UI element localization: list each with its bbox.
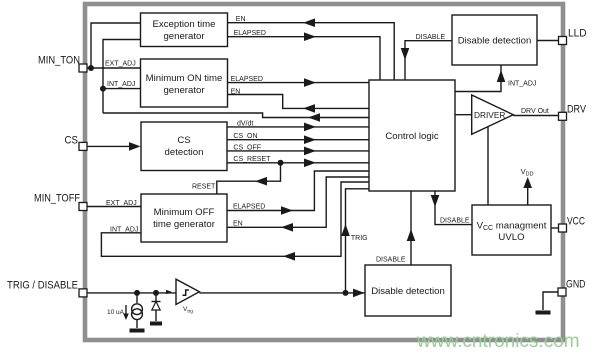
svg-text:MIN_TOFF: MIN_TOFF [34, 193, 80, 205]
block Exception time generator [141, 13, 228, 47]
wire diode cathode to ground [155, 310, 157, 321]
wire DISABLE top detection to control logic [405, 41, 452, 80]
wire TRIG line comparator to control logic [346, 189, 370, 293]
block Disable detection bottom [365, 265, 451, 316]
wire MinON INT_ADJ branch [103, 88, 141, 90]
current direction arrow 10uA [125, 305, 127, 315]
svg-text:time generator: time generator [153, 219, 216, 230]
arrowhead TRIG up [341, 224, 350, 236]
wire MIN_TON branch up to Exception EXT input [91, 23, 141, 68]
op-amp DRIVER U2 [472, 95, 514, 134]
svg-text:Disable detection: Disable detection [458, 36, 532, 47]
arrowhead INT_ADJ MinOFF left [283, 252, 295, 261]
wire ELAPSED MinOFF line [227, 171, 369, 211]
svg-text:CS_OFF: CS_OFF [233, 144, 261, 151]
outer IC frame [85, 4, 563, 340]
wire EN exception line [228, 23, 395, 80]
ground current source [130, 329, 145, 333]
svg-text:Disable detection: Disable detection [371, 286, 445, 297]
svg-text:CS_ON: CS_ON [233, 133, 257, 140]
svg-text:INT_ADJ: INT_ADJ [508, 81, 536, 88]
wire control logic to driver input [455, 114, 472, 116]
svg-text:Control logic: Control logic [385, 131, 439, 142]
svg-text:UVLO: UVLO [498, 232, 524, 243]
svg-text:10 uA: 10 uA [107, 309, 125, 316]
pin MIN_TOFF [79, 203, 87, 211]
arrowhead dV/dt right [304, 123, 316, 132]
svg-text:DISABLE: DISABLE [376, 257, 406, 264]
wire CS_ON line [227, 139, 369, 141]
wire UVLO to VCC pin [551, 227, 558, 229]
svg-text:generator: generator [163, 31, 205, 42]
block Disable detection top [452, 15, 537, 65]
svg-text:dV/dt: dV/dt [237, 120, 253, 127]
svg-text:CS: CS [65, 135, 79, 147]
pin GND [558, 288, 566, 296]
svg-text:DISABLE: DISABLE [416, 34, 446, 41]
wire INT_ADJ control logic to top disable detection [455, 65, 501, 92]
wire CS_OFF line [227, 150, 369, 152]
wire MinOFF INT_ADJ line from control logic [101, 182, 369, 256]
wire top disable detection to LLD pin [537, 40, 558, 42]
wire CS input [87, 145, 138, 147]
svg-text:INT_ADJ: INT_ADJ [107, 81, 135, 88]
arrowhead comparator input [166, 290, 172, 295]
svg-text:RESET: RESET [192, 184, 216, 191]
schmitt hysteresis symbol [183, 290, 189, 295]
svg-text:ELAPSED: ELAPSED [231, 76, 263, 83]
arrowhead INT_ADJ long left [308, 113, 320, 122]
wire RESET branch to MinOFF top [217, 163, 281, 194]
svg-text:DRIVER: DRIVER [474, 110, 505, 120]
svg-text:CS: CS [177, 135, 190, 146]
ground GND pin [536, 311, 551, 315]
svg-text:Minimum ON time: Minimum ON time [146, 73, 223, 84]
pin MIN_TON [79, 64, 87, 72]
arrowhead CS_RESET right [304, 159, 316, 168]
block Minimum OFF time generator [141, 194, 227, 242]
arrowhead CS input right [129, 142, 141, 151]
svg-text:EXT_ADJ: EXT_ADJ [106, 200, 137, 207]
pin CS [79, 142, 87, 150]
arrowhead DISABLE mid down [431, 195, 440, 207]
wire current source bottom to ground [136, 320, 138, 328]
wire current source top [136, 293, 138, 303]
ground diode [150, 322, 162, 326]
block CS detection [141, 122, 227, 171]
wire CS_RESET line [227, 162, 369, 164]
arrowhead DISABLE top down [401, 48, 410, 60]
arrowhead ELAPSED exception right [304, 32, 316, 41]
wire EN MinOFF line [227, 177, 369, 227]
arrowhead EN MinOFF left [281, 223, 293, 232]
diode D1 [152, 301, 161, 303]
block Control logic [369, 80, 455, 191]
arrowhead DISABLE bottom up [407, 229, 416, 241]
arrowhead VDD up [523, 177, 532, 188]
wire dV/dt line [227, 126, 369, 128]
svg-text:DRV Out: DRV Out [521, 108, 549, 115]
arrowhead CS_OFF right [304, 147, 316, 156]
wire MIN_TOFF pin to MinOFF EXT_ADJ [87, 206, 141, 208]
svg-text:EN: EN [236, 16, 246, 23]
svg-text:Minimum OFF: Minimum OFF [154, 207, 215, 218]
node junction comparator output [343, 290, 349, 296]
svg-text:ELAPSED: ELAPSED [233, 204, 265, 211]
svg-text:EXT_ADJ: EXT_ADJ [105, 61, 136, 68]
wire driver output to DRV pin [513, 115, 558, 117]
node junction diode tap [153, 290, 159, 296]
wire EN MinON line [228, 95, 370, 109]
svg-text:EN: EN [231, 89, 241, 96]
block VCC management UVLO [472, 205, 551, 255]
wire ELAPSED exception line [228, 37, 381, 80]
svg-text:CS_RESET: CS_RESET [233, 156, 271, 163]
svg-text:detection: detection [165, 147, 204, 158]
wire INT_ADJ net vertical (Exception INT / MinON INT) [103, 40, 141, 114]
svg-text:DRV: DRV [567, 104, 587, 116]
comparator U1 schmitt trigger [176, 279, 199, 304]
svg-text:generator: generator [163, 85, 205, 96]
arrowhead ELAPSED MinOFF right [281, 206, 293, 215]
svg-text:EN: EN [233, 221, 243, 228]
svg-text:ELAPSED: ELAPSED [234, 30, 266, 37]
wire DISABLE control logic to VCC UVLO [435, 191, 472, 225]
wire GND pin to ground [543, 292, 558, 310]
svg-text:TRIG / DISABLE: TRIG / DISABLE [7, 280, 78, 292]
node junction INT_ADJ [100, 86, 106, 92]
svg-text:GND: GND [566, 279, 586, 291]
arrowhead INT_ADJ right up [497, 70, 506, 82]
pin DRV [559, 112, 567, 120]
svg-text:VCC: VCC [567, 216, 585, 228]
node junction MIN_TON [88, 65, 94, 71]
wire driver supply from UVLO [487, 126, 489, 205]
node junction CS_RESET [278, 160, 284, 166]
svg-text:MIN_TON: MIN_TON [38, 55, 80, 67]
wire ELAPSED MinON line [228, 82, 370, 84]
arrowhead into bottom disable right [353, 289, 365, 298]
wire VDD arrow from UVLO top [527, 180, 529, 205]
arrowhead CS_ON right [304, 135, 316, 144]
wire MIN_TON pin to MinON EXT_ADJ [87, 67, 141, 69]
svg-text:TRIG: TRIG [351, 235, 368, 242]
wire TRIG/DISABLE pin to comparator [87, 292, 176, 294]
arrowhead ELAPSED MinON right [304, 78, 316, 87]
arrowhead RESET left [255, 177, 267, 186]
current source I1 circles [132, 304, 143, 315]
wire INT_ADJ long line to control logic [103, 113, 369, 118]
block Minimum ON time generator [141, 59, 228, 107]
node junction current source tap [134, 290, 140, 296]
svg-text:Exception time: Exception time [153, 19, 216, 30]
arrowhead EN exception left [303, 18, 315, 27]
wire DISABLE bottom block to control logic [410, 191, 412, 265]
pin TRIG/DISABLE [79, 289, 87, 297]
pin VCC [559, 224, 567, 232]
svg-text:INT_ADJ: INT_ADJ [110, 226, 138, 233]
wire diode anode [155, 293, 157, 301]
svg-text:LLD: LLD [568, 28, 587, 40]
pin LLD [559, 37, 567, 45]
svg-text:www.cntronics.com: www.cntronics.com [416, 331, 580, 352]
svg-text:DISABLE: DISABLE [440, 218, 470, 225]
arrowhead EN MinON left [303, 104, 315, 113]
wire comparator output to bottom disable detection [199, 292, 365, 294]
